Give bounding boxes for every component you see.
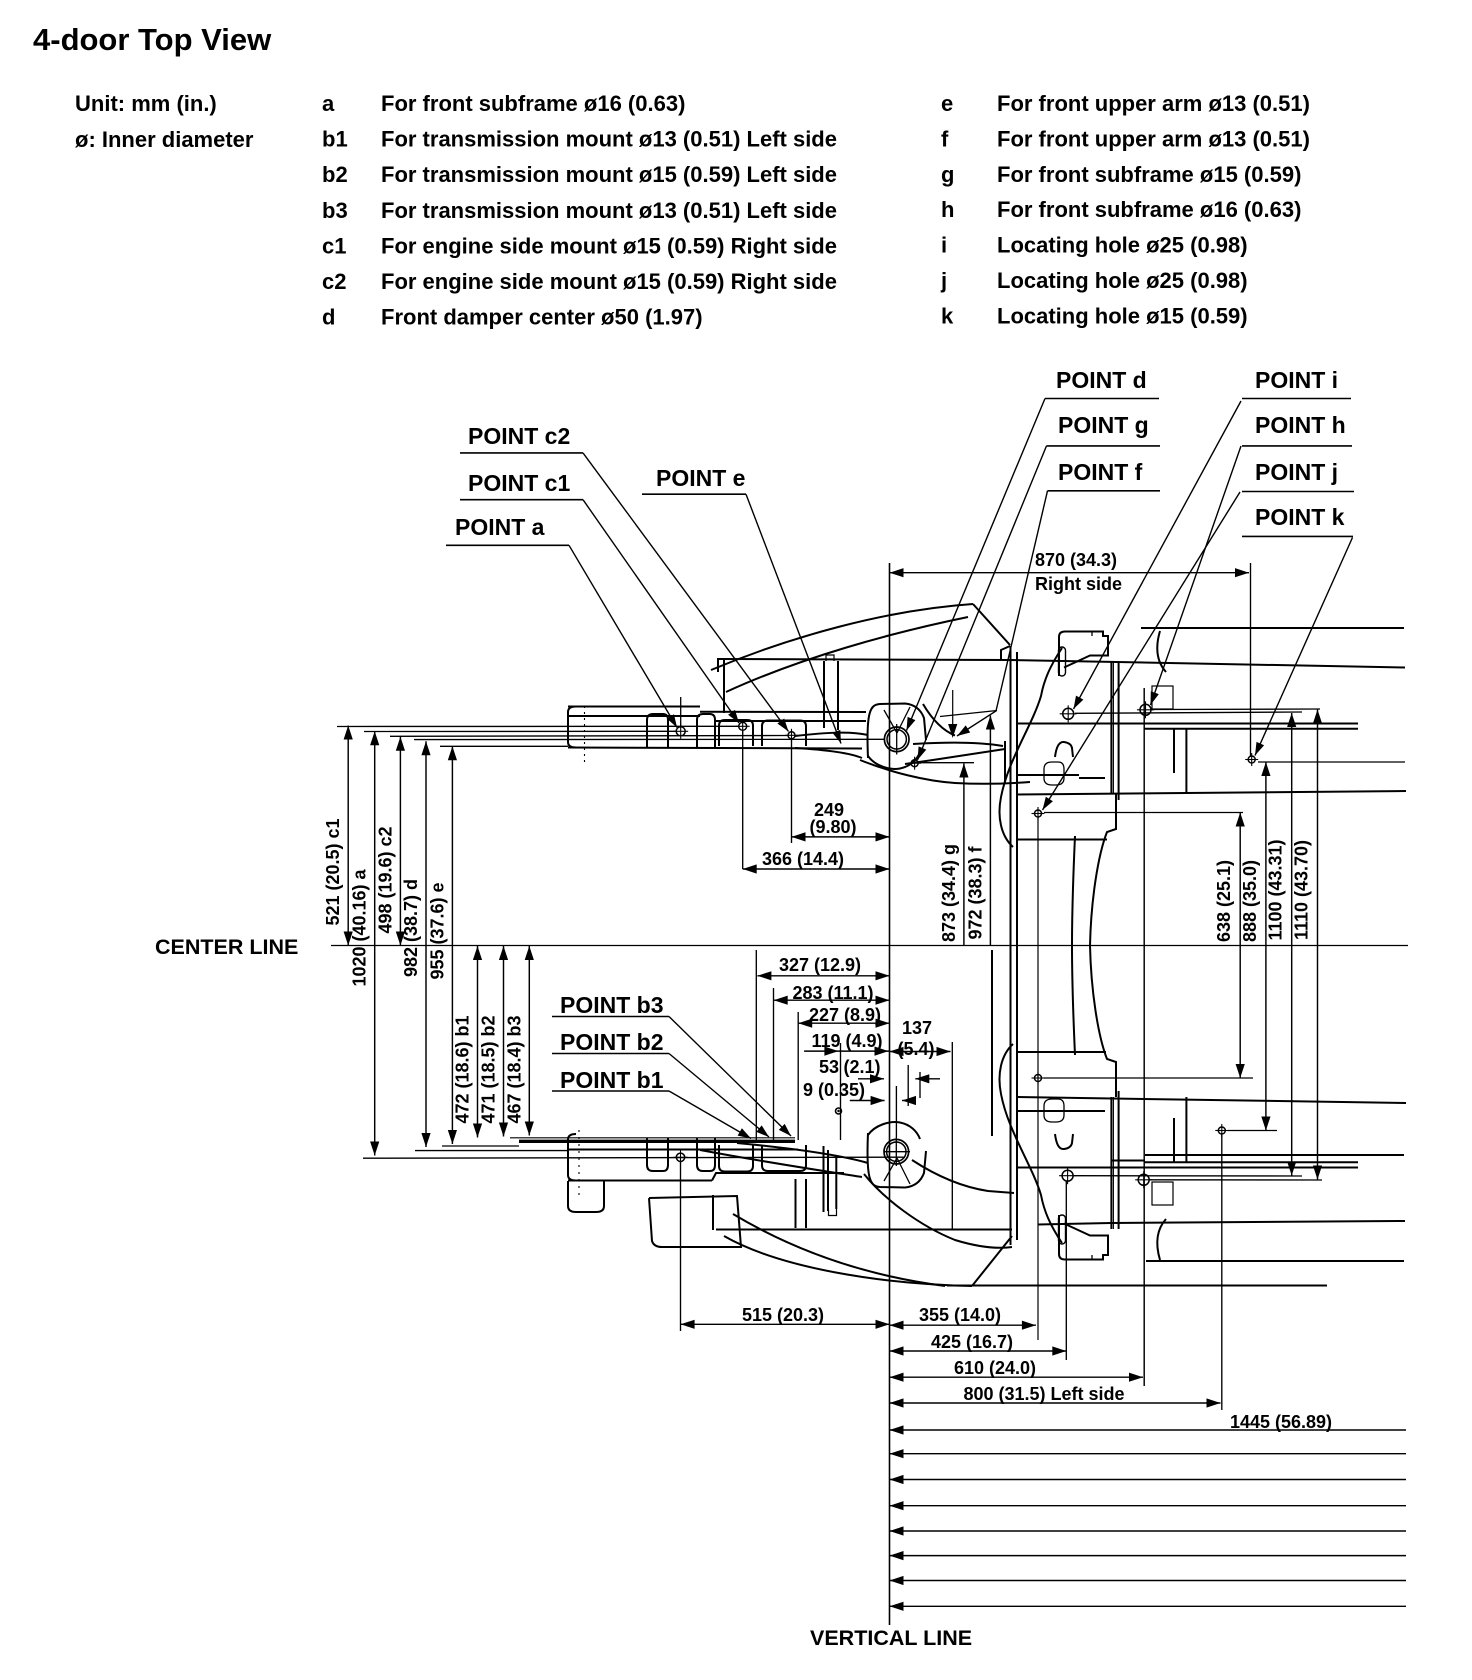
svg-text:POINT e: POINT e [656,465,745,491]
svg-text:For transmission mount ø15 (0.: For transmission mount ø15 (0.59) Left s… [381,162,837,187]
svg-text:1110 (43.70): 1110 (43.70) [1292,840,1312,940]
svg-text:521 (20.5) c1: 521 (20.5) c1 [323,818,343,925]
svg-text:POINT g: POINT g [1058,412,1149,438]
svg-text:366 (14.4): 366 (14.4) [762,849,844,869]
svg-text:471 (18.5) b2: 471 (18.5) b2 [479,1015,499,1123]
svg-text:VERTICAL LINE: VERTICAL LINE [810,1626,972,1650]
svg-text:Locating hole ø25 (0.98): Locating hole ø25 (0.98) [997,233,1248,258]
svg-text:For front subframe ø16 (0.63): For front subframe ø16 (0.63) [997,197,1301,222]
svg-text:472 (18.6) b1: 472 (18.6) b1 [453,1015,473,1123]
svg-text:638 (25.1): 638 (25.1) [1214,860,1234,942]
svg-text:POINT k: POINT k [1255,504,1345,530]
svg-text:467 (18.4) b3: 467 (18.4) b3 [504,1015,524,1123]
svg-text:1020 (40.16) a: 1020 (40.16) a [350,868,370,986]
svg-text:972 (38.3) f: 972 (38.3) f [965,845,985,939]
svg-text:4-door Top View: 4-door Top View [33,22,272,57]
svg-text:119 (4.9): 119 (4.9) [811,1031,882,1051]
svg-text:425 (16.7): 425 (16.7) [931,1332,1013,1352]
svg-text:c2: c2 [322,269,346,294]
svg-text:Unit: mm (in.): Unit: mm (in.) [75,91,217,116]
svg-text:i: i [941,233,947,258]
svg-text:1100 (43.31): 1100 (43.31) [1266,839,1286,940]
svg-text:For transmission mount ø13 (0.: For transmission mount ø13 (0.51) Left s… [381,127,837,152]
svg-text:a: a [322,91,335,116]
svg-text:For front upper arm ø13 (0.51): For front upper arm ø13 (0.51) [997,126,1310,151]
svg-text:498 (19.6) c2: 498 (19.6) c2 [375,826,395,933]
svg-text:h: h [941,197,954,222]
svg-text:800 (31.5) Left side: 800 (31.5) Left side [963,1384,1124,1404]
svg-text:POINT b1: POINT b1 [560,1067,664,1093]
svg-text:g: g [941,162,954,187]
svg-text:870 (34.3): 870 (34.3) [1035,550,1117,570]
svg-text:POINT a: POINT a [455,514,545,540]
svg-text:9 (0.35): 9 (0.35) [803,1080,865,1100]
svg-text:Front damper center ø50 (1.97): Front damper center ø50 (1.97) [381,305,703,330]
svg-text:327 (12.9): 327 (12.9) [779,955,861,975]
svg-text:Locating hole ø25 (0.98): Locating hole ø25 (0.98) [997,268,1248,293]
svg-text:873 (34.4) g: 873 (34.4) g [939,844,959,942]
svg-text:POINT j: POINT j [1255,459,1338,485]
svg-text:355 (14.0): 355 (14.0) [919,1305,1001,1325]
svg-text:f: f [941,126,949,151]
svg-text:For front subframe ø15 (0.59): For front subframe ø15 (0.59) [997,162,1301,187]
svg-text:137: 137 [902,1018,932,1038]
svg-text:53: 53 [819,1057,839,1077]
svg-text:610 (24.0): 610 (24.0) [954,1358,1036,1378]
svg-text:b2: b2 [322,162,348,187]
svg-text:POINT h: POINT h [1255,412,1346,438]
svg-text:POINT f: POINT f [1058,459,1143,485]
svg-text:POINT b3: POINT b3 [560,992,664,1018]
svg-text:(2.1): (2.1) [843,1057,880,1077]
svg-text:1445 (56.89): 1445 (56.89) [1230,1412,1332,1432]
svg-text:CENTER LINE: CENTER LINE [155,935,298,959]
svg-text:d: d [322,305,335,330]
svg-text:For transmission mount ø13 (0.: For transmission mount ø13 (0.51) Left s… [381,198,837,223]
svg-text:POINT b2: POINT b2 [560,1029,664,1055]
svg-text:POINT c2: POINT c2 [468,423,570,449]
svg-text:b1: b1 [322,127,348,152]
svg-text:982 (38.7) d: 982 (38.7) d [401,879,421,977]
svg-text:j: j [940,268,947,293]
svg-text:515 (20.3): 515 (20.3) [742,1305,824,1325]
svg-text:k: k [941,303,954,328]
svg-text:For front subframe ø16 (0.63): For front subframe ø16 (0.63) [381,91,685,116]
svg-text:POINT d: POINT d [1056,367,1147,393]
svg-text:b3: b3 [322,198,348,223]
svg-text:Right side: Right side [1035,574,1122,594]
svg-text:POINT c1: POINT c1 [468,470,570,496]
svg-text:Locating hole ø15 (0.59): Locating hole ø15 (0.59) [997,303,1248,328]
svg-text:POINT i: POINT i [1255,367,1338,393]
svg-text:888 (35.0): 888 (35.0) [1240,860,1260,942]
svg-text:ø: Inner diameter: ø: Inner diameter [75,127,254,152]
svg-text:(9.80): (9.80) [809,817,856,837]
svg-text:For front upper arm ø13 (0.51): For front upper arm ø13 (0.51) [997,91,1310,116]
svg-text:227 (8.9): 227 (8.9) [809,1005,881,1025]
svg-text:For engine side mount ø15 (0.5: For engine side mount ø15 (0.59) Right s… [381,233,837,258]
svg-text:c1: c1 [322,233,346,258]
svg-text:e: e [941,91,953,116]
svg-text:For engine side mount ø15 (0.5: For engine side mount ø15 (0.59) Right s… [381,269,837,294]
svg-text:955 (37.6) e: 955 (37.6) e [427,882,447,979]
